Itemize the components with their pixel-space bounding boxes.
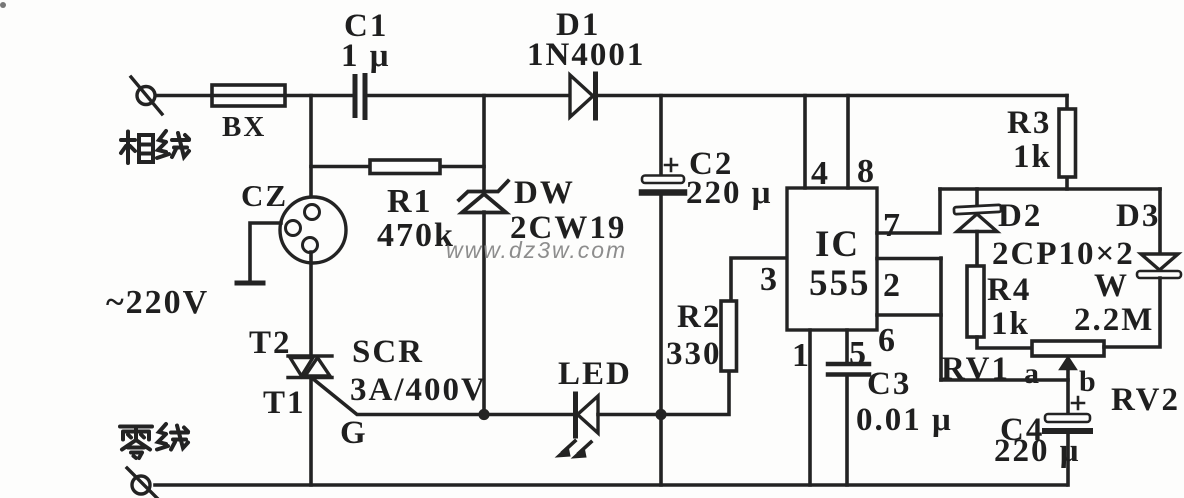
node label 零线 — [120, 424, 188, 458]
svg-text:SCR: SCR — [352, 334, 424, 370]
triac SCR 3A/400V — [288, 252, 332, 485]
diode D3 — [1158, 189, 1162, 253]
resistor R3 1k — [1059, 96, 1076, 190]
svg-text:C3: C3 — [867, 366, 911, 402]
terminal neutral-line — [127, 468, 157, 498]
terminal phase-line input — [131, 77, 162, 114]
svg-text:0.01 μ: 0.01 μ — [856, 402, 953, 438]
svg-text:220 μ: 220 μ — [686, 175, 772, 211]
wire RV1 (pins 2-6 to wiper) — [941, 378, 1068, 382]
svg-text:7: 7 — [883, 207, 902, 244]
wire CZ earth stub — [237, 223, 281, 283]
wire top rail — [155, 94, 1067, 98]
svg-text:D2: D2 — [998, 198, 1042, 234]
node label 相线 — [121, 131, 189, 163]
svg-text:1k: 1k — [991, 306, 1030, 342]
svg-text:1: 1 — [792, 337, 811, 374]
wire bottom rail — [155, 483, 1066, 487]
wire SCR gate — [312, 378, 573, 415]
wire block top edge — [940, 187, 1160, 191]
zener DW 2CW19 — [459, 96, 508, 415]
svg-text:1N4001: 1N4001 — [527, 37, 645, 73]
svg-text:D3: D3 — [1116, 198, 1160, 234]
svg-text:470k: 470k — [377, 217, 455, 254]
wire pin 8 — [846, 96, 850, 189]
svg-text:R4: R4 — [987, 272, 1031, 308]
node junction gate/DW — [478, 409, 489, 420]
svg-text:RV1: RV1 — [941, 351, 1010, 387]
svg-text:RV2: RV2 — [1111, 382, 1180, 418]
svg-text:CZ: CZ — [241, 178, 288, 213]
svg-text:BX: BX — [222, 111, 266, 143]
svg-text:555: 555 — [809, 263, 871, 304]
wire pins 2-6 riser — [939, 258, 943, 380]
IC 555 — [787, 188, 877, 330]
wire pin 6 — [877, 313, 941, 317]
capacitor C4 220u — [1045, 397, 1090, 485]
svg-text:220 μ: 220 μ — [994, 433, 1080, 469]
resistor R4 1k — [967, 266, 1032, 348]
svg-text:6: 6 — [878, 322, 897, 359]
diode D1 1N4001 — [570, 74, 596, 118]
svg-text:R1: R1 — [387, 183, 433, 220]
node junction LED/C2 — [655, 409, 666, 420]
svg-text:2: 2 — [883, 267, 902, 304]
svg-text:R2: R2 — [677, 299, 721, 335]
svg-text:www.dz3w.com: www.dz3w.com — [446, 237, 627, 263]
capacitor C3 0.01u on pin 5 — [828, 330, 869, 485]
svg-text:8: 8 — [857, 153, 876, 190]
capacitor C2 220u — [642, 96, 684, 415]
wire C2 line to bottom rail — [659, 414, 663, 485]
svg-text:330: 330 — [666, 336, 722, 372]
wire pin 1 — [808, 330, 812, 485]
svg-text:IC: IC — [815, 224, 860, 265]
svg-text:5: 5 — [849, 335, 868, 372]
svg-text:1k: 1k — [1013, 139, 1052, 175]
svg-text:2.2M: 2.2M — [1074, 302, 1154, 338]
svg-text:LED: LED — [558, 356, 632, 392]
svg-text:3: 3 — [760, 261, 779, 298]
resistor R1 — [311, 160, 484, 174]
resistor R2 330 — [661, 258, 787, 415]
wire pin 2 — [877, 257, 941, 261]
svg-text:~220V: ~220V — [106, 284, 209, 321]
svg-text:a: a — [1024, 357, 1041, 390]
wire pin 7 — [877, 189, 940, 233]
svg-text:4: 4 — [811, 155, 830, 192]
LED — [556, 394, 661, 458]
diode D2 — [954, 189, 1001, 266]
svg-text:DW: DW — [514, 175, 575, 211]
wire junction riser to CZ — [309, 96, 313, 206]
wire pin 4 — [803, 96, 807, 189]
svg-text:b: b — [1079, 365, 1098, 398]
svg-text:3A/400V: 3A/400V — [350, 372, 487, 408]
svg-text:G: G — [340, 415, 368, 451]
socket CZ — [280, 197, 346, 263]
svg-text:T1: T1 — [263, 385, 306, 421]
capacitor C1 — [353, 73, 368, 120]
svg-text:R3: R3 — [1007, 105, 1051, 141]
potentiometer W 2.2M — [1032, 341, 1104, 414]
svg-text:2CP10×2: 2CP10×2 — [992, 236, 1135, 272]
watermark www.dz3w.com — [446, 237, 627, 263]
fuse BX — [212, 85, 285, 106]
svg-text:1 μ: 1 μ — [341, 38, 390, 74]
svg-text:W: W — [1094, 268, 1129, 304]
svg-text:T2: T2 — [249, 325, 292, 361]
node label ~220V — [106, 284, 209, 321]
